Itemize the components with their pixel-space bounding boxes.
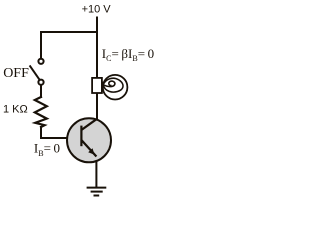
transistor Q1 base bar — [80, 126, 82, 147]
svg-text:+10 V: +10 V — [82, 4, 112, 16]
wire: switch bottom terminal to resistor — [40, 85, 42, 97]
wire: resistor bottom lead and base wire to transistor — [41, 127, 68, 138]
wire: emitter to ground — [95, 156, 97, 187]
svg-text:OFF: OFF — [3, 66, 29, 81]
transistor Q1 collector line — [81, 119, 97, 130]
switch SW1 bottom terminal — [38, 80, 43, 85]
resistor R1 1 kΩ zigzag — [35, 97, 47, 127]
lamp DS1 filament — [102, 78, 123, 92]
switch SW1 top terminal — [38, 59, 43, 64]
transistor Q1 emitter line — [81, 140, 96, 157]
transistor Q1 emitter arrowhead — [88, 148, 94, 155]
lamp DS1 bulb globe — [103, 75, 128, 100]
wire: collector wire lamp bottom to transistor top — [96, 93, 98, 119]
transistor Q1 body — [67, 118, 111, 162]
lamp DS1 base rectangle — [92, 78, 102, 93]
wire: left vertical down to switch top terminal — [40, 32, 42, 58]
switch SW1 lever — [30, 65, 40, 79]
wire: top horizontal — [41, 31, 97, 33]
ground symbol — [87, 188, 107, 196]
wire: +10V stub down through top junction to lamp top — [96, 18, 98, 79]
lamp DS1 filament inner curl — [104, 81, 115, 87]
svg-text:IB= 0: IB= 0 — [34, 141, 60, 159]
svg-text:1 KΩ: 1 KΩ — [3, 104, 28, 116]
